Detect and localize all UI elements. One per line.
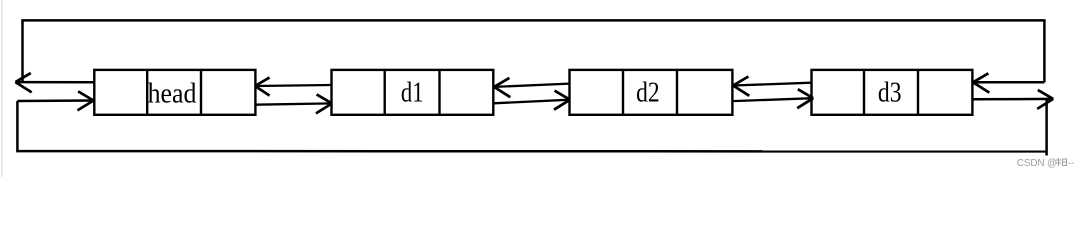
arrowhead top-loop left (points left) <box>15 73 31 92</box>
arrowhead bottom-loop right (points right) <box>1037 90 1053 109</box>
node head box <box>94 70 255 115</box>
wire bottom loop (d3.next to head) <box>16 99 1053 156</box>
page left border <box>1 0 3 177</box>
arrowhead into d2 left edge <box>554 91 570 110</box>
arrowhead bottom-loop left into head (points right) <box>78 91 94 110</box>
svg-text:CSDN @: CSDN @ <box>1017 158 1057 169</box>
arrowhead top-loop right into d3 (points left) <box>973 73 989 92</box>
wire head.next to d1 (lower, points right) <box>255 103 332 104</box>
arrowhead into head right edge <box>255 77 270 95</box>
arrowhead into d1 left edge <box>316 94 332 113</box>
node d3 box <box>812 70 973 115</box>
svg-text:d2: d2 <box>636 77 660 108</box>
arrowhead into d3 left edge <box>797 89 813 108</box>
watermark CJK glyph ming <box>1056 158 1067 166</box>
wire d3.prev to d2 (upper, points left) <box>733 83 812 86</box>
node d1 box <box>332 70 494 115</box>
wire top loop (head.prev to d3) <box>15 20 1045 82</box>
wire d2.prev to d1 (upper, points left) <box>494 84 570 87</box>
svg-text:d3: d3 <box>878 77 902 108</box>
node d2 box <box>570 70 733 115</box>
svg-text:d1: d1 <box>401 77 424 108</box>
wire d1.prev to head (upper, points left) <box>255 85 332 86</box>
wire d1.next to d2 (lower, points right) <box>493 100 570 104</box>
arrowhead into d1 right edge <box>494 78 510 97</box>
arrowhead into d2 right edge <box>733 77 749 96</box>
svg-text:--: -- <box>1068 158 1075 169</box>
svg-text:head: head <box>148 78 197 109</box>
wire d2.next to d3 (lower, points right) <box>732 98 813 101</box>
